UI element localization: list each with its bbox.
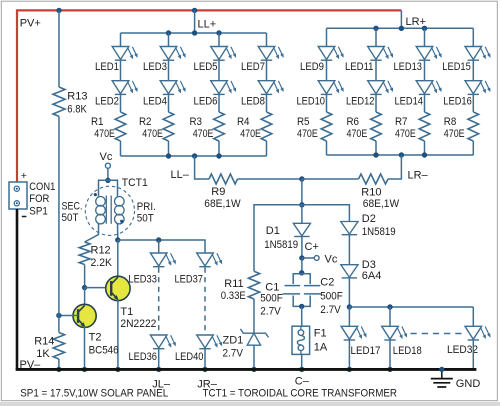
wire PV+ to R13 [58,10,60,87]
svg-text:LED40: LED40 [175,351,204,363]
wire LED row bus [349,306,473,308]
svg-text:R5: R5 [297,116,310,128]
wire base node to R14 [58,316,60,333]
wire D2 to D3 [348,235,350,265]
node transformer center tap [105,178,110,183]
label LED6 [194,95,218,107]
wire column LED1 string [120,33,122,156]
wire branch to R11 column [254,205,302,271]
svg-text:470E: 470E [347,128,368,140]
svg-text:LED5: LED5 [194,61,218,73]
node LR+ bus col2 [373,26,378,31]
label LED36 [129,351,158,363]
label R8 [444,116,457,128]
label R6 value 470E [347,128,368,140]
LED LED9 [318,47,343,61]
svg-text:R8: R8 [444,116,457,128]
label LED37 [175,274,204,286]
svg-text:LED7: LED7 [241,61,265,73]
label LED16 [443,95,472,107]
label SEC. turns 50T [62,212,79,224]
node C+ node [299,255,304,260]
wire T2 emitter to ground bus [84,327,86,370]
label R4 value 470E [240,128,261,140]
wire primary to LED columns [118,240,205,253]
label JR- [197,378,217,390]
svg-text:0.33E: 0.33E [221,290,246,302]
svg-text:R14: R14 [34,336,54,348]
svg-text:LED15: LED15 [442,61,471,73]
label D2 [362,213,376,225]
label LED2 [95,95,119,107]
label R5 [297,116,310,128]
node LR+ bus col3 [422,26,427,31]
LED LED4 [160,81,185,95]
transformer TCT1 primary winding [115,197,125,224]
wire LL+ top bus [121,10,267,33]
label LR- [408,169,429,181]
label LED33 [128,274,157,286]
resistor R8 [468,112,479,141]
terminal Vc open circle [314,256,319,261]
resistor R9 [209,174,238,184]
transistor T1 [106,276,130,300]
label R8 value 470E [444,128,465,140]
label CON1 plus [21,170,27,182]
label R10 [361,187,381,199]
svg-text:500F: 500F [260,293,283,305]
LED LED3 [160,47,185,61]
wire LR+ feed and top bus [327,10,474,28]
wire feed to LED18 [389,307,391,326]
label LED3 [143,61,167,73]
label R10 value 68E,1W [363,198,400,210]
LED LED17 [341,326,366,340]
wire dashed omitted series LEDs right [204,268,206,336]
label T1 [120,306,133,318]
svg-text:D3: D3 [362,259,376,271]
label PV+ [20,18,41,30]
wire LED18 to ground bus [389,340,391,369]
label LED12 [346,95,375,107]
label F1 value 1A [314,341,328,353]
wire column LED3 string [168,33,170,156]
label LED14 [395,95,424,107]
wire R12 to base node [84,265,86,288]
label CON1 minus [22,216,27,218]
svg-text:LED11: LED11 [345,61,374,73]
node LR- bus col2 [373,152,378,157]
svg-text:470E: 470E [395,128,416,140]
label D3 [362,259,376,271]
wire R10 to center node [302,178,359,180]
svg-text:470E: 470E [240,128,261,140]
label R12 [91,245,111,257]
node LL+ bus feed [192,30,197,35]
label C1 [265,281,279,293]
label C1 value 2.7V [260,305,281,317]
svg-text:LED9: LED9 [300,61,324,73]
label LED18 [393,345,422,357]
label TCT1 [122,177,148,189]
label PRI. [137,201,156,213]
label Vc near C+ [325,254,338,266]
LED LED37 [197,253,222,267]
label R14 value 1K [36,348,50,360]
LED LED5 [211,47,236,61]
svg-text:LED36: LED36 [129,351,158,363]
label R5 value 470E [297,128,318,140]
wire dashed omitted LED columns [411,333,463,335]
svg-text:2.7V: 2.7V [260,305,281,317]
wire PV+ red bus from solar connector [17,10,401,181]
LED LED1 [112,47,137,61]
label LED4 [143,95,167,107]
LED LED32 [465,326,490,340]
svg-text:SEC.: SEC. [62,201,83,213]
label D1 [266,225,280,237]
svg-text:+: + [21,170,27,182]
node T2 emitter ground [82,367,87,372]
node LED33 feed [156,237,161,242]
svg-text:T2: T2 [89,331,102,343]
label SP1 [29,206,48,218]
resistor R6 [371,112,382,141]
wire ZD1 to ground bus [253,345,255,369]
label R1 [91,116,104,128]
svg-text:470E: 470E [297,128,318,140]
capacitor C1 [283,286,301,294]
wire T1 collector [117,240,119,277]
wire LL- bottom bus [121,155,267,157]
wire feed to LED32 [472,307,474,326]
wire feed to LED17 [348,307,350,326]
svg-text:1K: 1K [36,348,50,360]
wire base node to T1 base [85,287,112,289]
wire D1 to C+ node [301,237,303,259]
caption TCT1 definition [203,387,398,399]
wire branch to D2 column [302,205,350,222]
svg-text:R4: R4 [237,116,250,128]
node LED18 feed [387,304,392,309]
wire column LED7 string [266,33,268,156]
node LL- bus col2 [166,153,171,158]
node capacitor top junction [299,270,304,275]
LED LED7 [258,47,283,61]
transformer phase dot primary [120,220,123,223]
wire PV- black [16,209,19,371]
label ZD1 value 2.7V [223,347,244,359]
label T2 type BC546 [89,345,119,357]
terminal Vc open circle upper [105,163,110,168]
svg-text:LED13: LED13 [394,61,423,73]
label JL- [152,378,171,390]
label LR+ [406,16,427,28]
svg-text:R6: R6 [347,116,360,128]
label PV- [20,359,42,371]
label C2 value 500F [320,291,343,303]
node R14 ground [56,367,61,372]
connector CON1 terminal - [14,201,19,206]
resistor R14 [53,333,64,360]
label LED8 [241,95,265,107]
svg-text:CON1: CON1 [29,181,55,193]
diode D3 [341,265,358,278]
svg-text:TCT1 = TOROIDAL CORE TRANSFORM: TCT1 = TOROIDAL CORE TRANSFORMER [203,387,398,399]
svg-text:C–: C– [295,375,310,387]
label T1 type 2N2222 [120,318,156,330]
label F1 [314,328,327,340]
svg-text:LED8: LED8 [241,95,265,107]
label LED32 [447,344,478,356]
node LL+ bus col2 [166,30,171,35]
svg-text:LED6: LED6 [194,95,218,107]
resistor R4 [261,112,272,141]
LED LED33 [150,253,175,267]
caption SP1 definition [20,387,168,399]
wire secondary to R12 [85,224,99,242]
wire dashed omitted series LEDs left [158,268,160,336]
label LED10 [297,95,326,107]
wire Vc tap [302,257,314,259]
node T1 base node [82,285,87,290]
label LED5 [194,61,218,73]
svg-text:T1: T1 [120,306,133,318]
node LED18 ground [387,367,392,372]
ground symbol [431,369,453,387]
label D3 value 6A4 [362,270,382,282]
resistor R11 [248,271,259,299]
svg-text:2.7V: 2.7V [320,304,341,316]
wire column LED15 string [472,28,474,155]
svg-text:C+: C+ [305,241,319,253]
label C- [295,375,310,387]
svg-text:R13: R13 [67,90,87,102]
label R2 [139,116,152,128]
wire feed to LED33 [158,240,160,253]
svg-text:F1: F1 [314,328,327,340]
wire R13 to base node [58,116,60,315]
diode D2 [341,222,358,235]
transformer phase dot secondary [94,193,97,196]
label T2 [89,331,102,343]
svg-text:R11: R11 [224,278,243,290]
node LED17 feed [347,304,352,309]
svg-text:2.2K: 2.2K [91,257,113,269]
transistor T2 [73,304,96,327]
wire T2 base lead [59,315,78,317]
LED LED8 [258,81,283,95]
svg-text:BC546: BC546 [89,345,119,357]
label R12 value 2.2K [91,257,113,269]
node capacitor bottom junction [299,304,304,309]
label GND [456,378,481,390]
label Vc upper [100,151,113,163]
svg-text:2N2222: 2N2222 [120,318,156,330]
wire column LED13 string [424,28,426,155]
node LR- bus col3 [422,152,427,157]
wire column LED5 string [218,33,220,156]
label LED17 [351,345,381,357]
wire LED17 to ground bus [348,340,350,369]
svg-text:470E: 470E [94,128,115,140]
svg-text:68E,1W: 68E,1W [204,198,241,210]
transformer TCT1 secondary winding [96,197,106,224]
wire LR- bottom bus [327,154,474,156]
svg-text:ZD1: ZD1 [223,335,244,347]
label R2 value 470E [142,128,163,140]
fuse F1 [292,326,310,354]
svg-text:C1: C1 [265,281,279,293]
label R14 [34,336,54,348]
node LR+ bus feed [399,26,404,31]
label R9 [211,186,225,198]
connector CON1 terminal + [14,186,19,191]
svg-text:D2: D2 [362,213,376,225]
wire D3 to LED row node [348,278,350,307]
wire R14 to ground bus [58,359,60,369]
label C+ [305,241,319,253]
svg-text:LR+: LR+ [406,16,427,28]
wire primary to T1 collector [117,224,119,240]
label R4 [237,116,250,128]
label R7 value 470E [395,128,416,140]
svg-text:PV+: PV+ [20,18,41,30]
svg-text:470E: 470E [444,128,465,140]
wire LED40 to ground bus [204,349,206,370]
svg-text:LED14: LED14 [395,95,424,107]
transformer TCT1 core [106,196,111,224]
label LED40 [175,351,204,363]
LED LED15 [465,47,490,61]
svg-text:LED2: LED2 [95,95,119,107]
svg-text:R7: R7 [395,116,408,128]
svg-text:R2: R2 [139,116,152,128]
svg-text:R10: R10 [361,187,381,199]
resistor R12 [79,242,90,265]
node on PV+ at LL+ feed [192,8,197,13]
svg-text:470E: 470E [142,128,163,140]
LED LED14 [416,81,441,95]
svg-text:PRI.: PRI. [137,201,156,213]
svg-text:68E,1W: 68E,1W [363,198,400,210]
wire R9 to center node [238,178,302,180]
svg-text:LL–: LL– [171,169,190,181]
label R6 [347,116,360,128]
label PRI. turns 50T [137,213,154,225]
svg-text:LED37: LED37 [175,274,204,286]
wire capacitor to fuse [301,306,303,326]
label R7 [395,116,408,128]
svg-text:R9: R9 [211,186,225,198]
svg-text:R1: R1 [91,116,104,128]
label C2 [320,276,334,288]
svg-text:LED33: LED33 [128,274,157,286]
LED LED18 [382,326,407,340]
node branch node [299,202,304,207]
svg-text:LED12: LED12 [346,95,375,107]
svg-text:LED3: LED3 [143,61,167,73]
capacitor top bracket [293,274,310,284]
zener ZD1 [240,329,268,345]
node LED36 ground [156,367,161,372]
label CON1 [29,181,55,193]
wire fuse to C- bus [301,354,303,369]
svg-text:SP1 = 17.5V,10W SOLAR PANEL: SP1 = 17.5V,10W SOLAR PANEL [20,387,168,399]
wire node to D1 [301,205,303,224]
svg-text:50T: 50T [137,213,154,225]
node LED17 ground [347,367,352,372]
svg-text:2.7V: 2.7V [223,347,244,359]
svg-text:Vc: Vc [325,254,338,266]
label C2 value 2.7V [320,304,341,316]
node primary to LED33 wire [115,237,120,242]
label LED7 [241,61,265,73]
label R9 value 68E,1W [204,198,241,210]
node GND tap [439,367,444,372]
svg-text:C2: C2 [320,276,334,288]
label R13 value 6.8K [67,103,87,115]
svg-text:6.8K: 6.8K [67,103,87,115]
label R3 [190,116,203,128]
svg-text:Vc: Vc [100,151,113,163]
wire LED36 to ground bus [158,349,160,370]
LED LED12 [368,81,393,95]
label D2 value 1N5819 [362,226,396,238]
LED LED2 [112,81,137,95]
wire LR- drop [388,155,401,179]
svg-text:1N5819: 1N5819 [362,226,396,238]
node T1 emitter ground [115,367,120,372]
LED LED6 [211,81,236,95]
node LL- bus col3 [216,153,221,158]
transformer TCT1 dashed circle [85,186,134,235]
label D1 value 1N5819 [264,239,298,251]
node ZD1 ground [251,367,256,372]
node center rectifier node [299,176,304,181]
transformer TCT1 bracket [99,180,118,196]
svg-text:D1: D1 [266,225,280,237]
svg-text:LED1: LED1 [95,61,119,73]
wire center node drop [301,179,303,205]
wire LED32 to ground bus [472,340,474,369]
svg-text:470E: 470E [193,128,214,140]
wire column LED9 string [326,28,328,155]
label R13 [67,90,87,102]
wire T2 collector [84,288,86,306]
capacitor C2 [304,286,321,294]
svg-text:LED17: LED17 [351,345,381,357]
label FOR [29,193,49,205]
wire Vc terminal to transformer tap [107,168,109,180]
svg-text:FOR: FOR [29,193,49,205]
wire T1 emitter to ground bus [117,300,119,370]
node T2 base divider node [56,313,61,318]
node C- on ground bus [299,367,304,372]
resistor R1 [115,112,126,141]
node LL- bus drop [192,153,197,158]
node on PV+ at R13 column [56,8,61,13]
label LED11 [345,61,374,73]
wire ground bus [16,368,477,371]
svg-text:LED4: LED4 [143,95,167,107]
svg-text:GND: GND [456,378,481,390]
resistor R2 [163,112,174,141]
label R3 value 470E [193,128,214,140]
LED LED40 [197,335,222,349]
label LED13 [394,61,423,73]
connector CON1 body [9,182,27,209]
